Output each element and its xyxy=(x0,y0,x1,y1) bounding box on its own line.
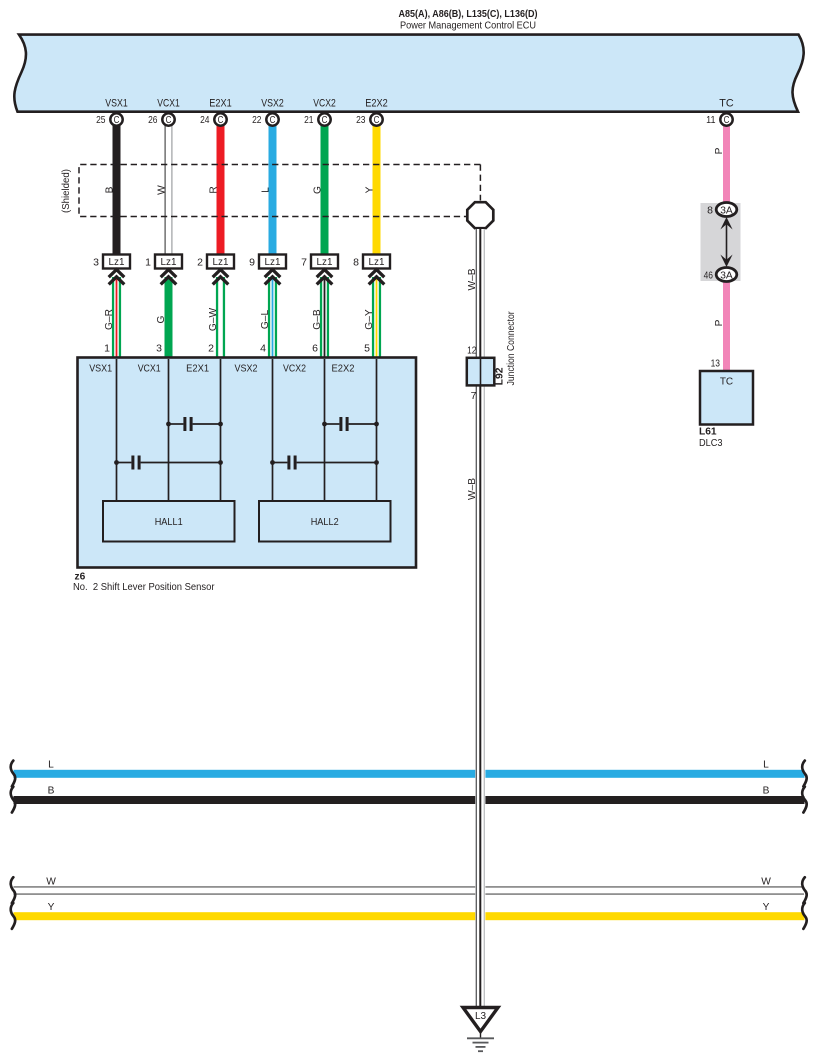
svg-text:G–B: G–B xyxy=(312,309,323,330)
svg-text:L: L xyxy=(763,759,769,770)
connector Lz1 pin 8 xyxy=(353,255,390,269)
ECU connector pin 25 (C) xyxy=(96,113,123,126)
connector L61 DLC3 TC box xyxy=(700,371,753,425)
sensor internal wire xyxy=(376,359,378,501)
svg-text:46: 46 xyxy=(704,270,714,282)
capacitor between VCX1 and E2X1 xyxy=(166,417,223,431)
svg-text:L: L xyxy=(48,759,54,770)
svg-text:G: G xyxy=(313,186,324,194)
svg-text:C: C xyxy=(724,115,730,126)
wire R from ECU pin 24 E2X1 to connector Lz1 xyxy=(217,126,225,255)
wire G–R from Lz1 to sensor pin 1 xyxy=(104,277,121,358)
svg-text:L3: L3 xyxy=(475,1011,487,1022)
svg-text:23: 23 xyxy=(356,114,366,126)
svg-text:G: G xyxy=(156,315,167,323)
sensor internal wire xyxy=(220,359,222,501)
svg-text:E2X1: E2X1 xyxy=(186,363,209,375)
svg-text:Junction Connector: Junction Connector xyxy=(506,311,517,385)
connector pass-through arrow xyxy=(720,217,732,267)
HALL2 block xyxy=(259,501,391,542)
in-line connector chevrons xyxy=(161,270,177,285)
connector block (gray) between 3A terminals xyxy=(701,203,741,281)
svg-text:VSX1: VSX1 xyxy=(105,98,128,110)
svg-text:9: 9 xyxy=(249,257,255,269)
svg-text:A85(A), A86(B), L135(C), L136(: A85(A), A86(B), L135(C), L136(D) xyxy=(399,8,538,20)
horizontal wire W xyxy=(14,877,805,895)
svg-text:Lz1: Lz1 xyxy=(265,257,281,268)
junction connector L92 xyxy=(467,311,517,402)
horizontal wire L xyxy=(14,759,805,778)
svg-text:Lz1: Lz1 xyxy=(109,257,125,268)
wire W-B from shield octagon to ground L3 xyxy=(475,229,485,1007)
svg-text:1: 1 xyxy=(145,257,151,269)
svg-text:Power Management Control ECU: Power Management Control ECU xyxy=(400,21,536,32)
wire L from ECU pin 22 VSX2 to connector Lz1 xyxy=(269,126,277,255)
svg-text:G–L: G–L xyxy=(260,310,271,330)
svg-text:Y: Y xyxy=(763,902,770,913)
svg-text:26: 26 xyxy=(148,114,158,126)
svg-text:Lz1: Lz1 xyxy=(317,257,333,268)
svg-text:C: C xyxy=(114,115,120,126)
connector terminal 46 (3A) xyxy=(704,268,737,282)
connector terminal 8 (3A) xyxy=(707,203,737,217)
svg-text:Lz1: Lz1 xyxy=(213,257,229,268)
ECU band (Power Management Control ECU) xyxy=(14,8,803,112)
wire G from Lz1 to sensor pin 3 xyxy=(156,277,172,358)
svg-text:B: B xyxy=(105,186,116,193)
wire W from ECU pin 26 VCX1 to connector Lz1 xyxy=(165,125,172,255)
svg-text:No. 2 Shift Lever Position Se: No. 2 Shift Lever Position Sensor xyxy=(73,582,215,593)
svg-text:VCX2: VCX2 xyxy=(283,363,306,375)
shielded cable dashed boundary xyxy=(61,165,480,217)
horizontal wire B xyxy=(14,785,805,804)
svg-text:R: R xyxy=(209,186,220,193)
wire continuation squiggle left xyxy=(11,761,15,787)
svg-text:24: 24 xyxy=(200,114,210,126)
capacitor between VSX1 and E2X1 xyxy=(114,456,223,470)
svg-text:(Shielded): (Shielded) xyxy=(61,169,72,213)
svg-text:L92: L92 xyxy=(495,367,506,385)
L61 DLC3 caption xyxy=(699,427,723,450)
svg-text:HALL1: HALL1 xyxy=(155,517,183,528)
connector Lz1 pin 2 xyxy=(197,255,234,269)
in-line connector chevrons xyxy=(213,270,229,285)
svg-text:C: C xyxy=(270,115,276,126)
svg-text:3A: 3A xyxy=(720,205,733,216)
svg-text:P: P xyxy=(714,319,725,326)
svg-text:C: C xyxy=(166,115,172,126)
svg-text:13: 13 xyxy=(711,358,721,370)
connector Lz1 pin 9 xyxy=(249,255,286,269)
svg-text:3: 3 xyxy=(93,257,99,269)
svg-text:B: B xyxy=(48,785,55,796)
wire P lower xyxy=(723,281,730,371)
svg-text:VCX1: VCX1 xyxy=(157,98,180,110)
horizontal wire Y xyxy=(14,902,805,920)
svg-text:C: C xyxy=(218,115,224,126)
svg-text:8: 8 xyxy=(707,205,713,217)
svg-text:7: 7 xyxy=(301,257,307,269)
ECU connector pin 11 (C) xyxy=(706,113,733,126)
svg-text:L: L xyxy=(261,187,272,193)
svg-text:G–R: G–R xyxy=(104,309,115,330)
svg-text:P: P xyxy=(714,147,725,154)
wire G–Y from Lz1 to sensor pin 5 xyxy=(364,277,381,358)
svg-text:W–B: W–B xyxy=(467,268,478,290)
svg-text:E2X2: E2X2 xyxy=(365,98,388,110)
ECU connector pin 21 (C) xyxy=(304,113,331,126)
connector Lz1 pin 3 xyxy=(93,255,130,269)
svg-text:W: W xyxy=(157,185,168,195)
svg-text:11: 11 xyxy=(706,114,716,126)
wire continuation squiggle left xyxy=(11,903,15,929)
svg-text:6: 6 xyxy=(312,343,318,355)
svg-text:TC: TC xyxy=(720,377,733,388)
svg-text:2: 2 xyxy=(208,343,214,355)
wire B from ECU pin 25 VSX1 to connector Lz1 xyxy=(113,126,121,255)
svg-text:VSX2: VSX2 xyxy=(261,98,284,110)
HALL1 block xyxy=(103,501,235,542)
in-line connector chevrons xyxy=(317,270,333,285)
wire continuation squiggle left xyxy=(11,787,15,813)
svg-text:W: W xyxy=(46,877,56,888)
svg-text:12: 12 xyxy=(467,345,477,357)
sensor internal wire xyxy=(272,359,274,501)
svg-text:B: B xyxy=(763,785,770,796)
svg-text:2: 2 xyxy=(197,257,203,269)
wire continuation squiggle right xyxy=(802,877,806,903)
svg-text:C: C xyxy=(322,115,328,126)
sensor z6 No.2 Shift Lever Position Sensor box xyxy=(78,358,417,568)
in-line connector chevrons xyxy=(369,270,385,285)
svg-text:W: W xyxy=(761,877,771,888)
in-line connector chevrons xyxy=(109,270,125,285)
svg-text:3: 3 xyxy=(156,343,162,355)
svg-text:3A: 3A xyxy=(720,270,733,281)
svg-text:C: C xyxy=(374,115,380,126)
svg-text:Lz1: Lz1 xyxy=(369,257,385,268)
wire G from ECU pin 21 VCX2 to connector Lz1 xyxy=(321,126,329,255)
svg-text:5: 5 xyxy=(364,343,370,355)
svg-text:Lz1: Lz1 xyxy=(161,257,177,268)
svg-text:z6: z6 xyxy=(75,572,86,583)
svg-text:Y: Y xyxy=(48,902,55,913)
ground symbol L3 xyxy=(463,1008,498,1052)
svg-text:8: 8 xyxy=(353,257,359,269)
sensor internal wire xyxy=(116,359,118,501)
svg-text:1: 1 xyxy=(104,343,110,355)
svg-text:W–B: W–B xyxy=(467,478,478,500)
svg-text:G–Y: G–Y xyxy=(364,309,375,330)
svg-text:25: 25 xyxy=(96,114,106,126)
svg-text:DLC3: DLC3 xyxy=(699,438,723,449)
connector Lz1 pin 1 xyxy=(145,255,182,269)
wire continuation squiggle right xyxy=(802,903,806,929)
svg-text:7: 7 xyxy=(471,390,477,402)
wire continuation squiggle right xyxy=(802,761,806,787)
ECU connector pin 24 (C) xyxy=(200,113,227,126)
ECU connector pin 22 (C) xyxy=(252,113,279,126)
wire Y from ECU pin 23 E2X2 to connector Lz1 xyxy=(373,126,381,255)
svg-text:4: 4 xyxy=(260,343,266,355)
svg-text:VCX1: VCX1 xyxy=(138,363,161,375)
svg-text:L61: L61 xyxy=(699,427,717,438)
sensor internal wire xyxy=(168,359,170,501)
wire G–B from Lz1 to sensor pin 6 xyxy=(312,277,329,358)
svg-text:G–W: G–W xyxy=(208,308,219,332)
sensor designator z6 caption xyxy=(73,572,215,594)
svg-text:E2X1: E2X1 xyxy=(209,98,232,110)
ECU connector pin 26 (C) xyxy=(148,113,175,126)
sensor internal wire xyxy=(324,359,326,501)
connector Lz1 pin 7 xyxy=(301,255,338,269)
svg-text:VSX1: VSX1 xyxy=(89,363,112,375)
svg-text:VSX2: VSX2 xyxy=(235,363,258,375)
wire G–L from Lz1 to sensor pin 4 xyxy=(260,277,277,358)
wire P from ECU pin 11 TC to connector 3A xyxy=(723,126,730,203)
capacitor between VCX2 and E2X2 xyxy=(322,417,379,431)
svg-text:HALL2: HALL2 xyxy=(311,517,339,528)
svg-text:22: 22 xyxy=(252,114,262,126)
svg-text:TC: TC xyxy=(719,98,734,110)
in-line connector chevrons xyxy=(265,270,281,285)
ECU connector pin 23 (C) xyxy=(356,113,383,126)
capacitor between VSX2 and E2X2 xyxy=(270,456,379,470)
svg-text:21: 21 xyxy=(304,114,314,126)
wire continuation squiggle right xyxy=(802,787,806,813)
wire G–W from Lz1 to sensor pin 2 xyxy=(208,277,225,358)
svg-text:Y: Y xyxy=(365,186,376,193)
svg-text:E2X2: E2X2 xyxy=(332,363,355,375)
svg-text:VCX2: VCX2 xyxy=(313,98,336,110)
wire continuation squiggle left xyxy=(11,877,15,903)
shield drain octagon symbol xyxy=(467,202,493,228)
